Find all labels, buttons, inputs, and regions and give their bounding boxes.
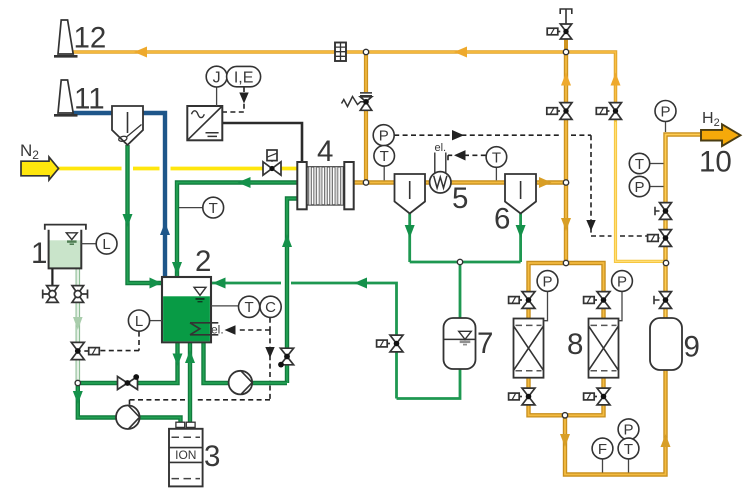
wire signal C to heater el. (dashed): [237, 318, 270, 330]
wire up arrow on blue riser: [160, 222, 170, 235]
instrument P (dryer 8b): [612, 271, 633, 292]
svg-text:10: 10: [699, 146, 732, 179]
node junction make-up/drain: [75, 380, 80, 385]
H2 product block arrow: [701, 124, 741, 146]
svg-text:2: 2: [195, 245, 211, 278]
wire separator drain to electrolyzer feed left (green): [128, 145, 162, 283]
buffer vessel 7 with level mark: [444, 318, 476, 369]
electrolyte tank 2 with heater: [162, 277, 211, 342]
instrument I,E (stadium): [227, 66, 261, 86]
instrument L (tank 2 level): [128, 310, 149, 331]
back-pressure control valve at (665.5,238) with actuator: [648, 230, 672, 247]
instrument T (after heater 5): [486, 147, 507, 168]
instrument T (stack outlet): [374, 146, 395, 167]
svg-text:7: 7: [477, 327, 493, 360]
svg-text:P: P: [379, 128, 389, 145]
svg-text:T: T: [380, 148, 389, 165]
wire up arrow into vessel 9 bottom: [661, 434, 671, 447]
svg-text:T: T: [635, 156, 644, 173]
wire tap P dryer 8a: [544, 291, 548, 320]
valve V-vent at (566,31.5) with solenoid actuator: [547, 24, 572, 39]
dryer 8b inlet valve at (603.5,300) with actuator: [584, 292, 610, 309]
svg-text:1: 1: [31, 237, 47, 270]
wire vent stub above valve x=566 to atmosphere: [564, 24, 568, 52]
wire tap P H2 line: [650, 186, 664, 188]
wire make-up water pale line from tank1: [76, 269, 81, 384]
wire flow arrow left on flare header: [454, 47, 467, 58]
wire tap L2 to tank2: [150, 320, 163, 322]
instrument P (H2 outlet top): [655, 101, 676, 122]
vent to atmosphere symbol above valve: [560, 9, 572, 24]
svg-text:I,E: I,E: [234, 69, 254, 86]
instrument J (current): [206, 66, 227, 87]
wire DC cable rectifier to stack4: [222, 123, 302, 161]
wire signal T to heater 5 (dashed): [448, 155, 486, 162]
node junction flare/vent riser: [563, 49, 568, 54]
wire tap P top of H2 line: [665, 122, 667, 132]
instrument P (stack outlet): [373, 125, 394, 146]
controller C (tank2): [260, 296, 281, 317]
wire tap T H2 line: [650, 163, 664, 165]
pump P2 (ion exchanger loop): [116, 405, 140, 429]
wire electrolyzer bottom left drain to junction (77.8,383): [80, 342, 178, 383]
svg-text:12: 12: [74, 22, 107, 55]
wire tap P dryer 8b: [619, 291, 623, 320]
dryer 8a inlet valve at (528.5,300) with actuator: [509, 292, 535, 309]
instrument P (bottom): [618, 419, 639, 440]
wire separator 5 drain (thin green): [408, 214, 411, 263]
wire separator 6 drain (thin green): [519, 214, 522, 263]
node junction flare/relief riser: [363, 49, 368, 54]
wire dryer 8b inlet stub valve to vessel: [601, 309, 605, 319]
instrument P (dryer 8a): [537, 271, 558, 292]
drain hand valve under tank1 left: [43, 286, 59, 303]
svg-text:4: 4: [317, 135, 333, 168]
wire relief riser x=366 from flare header to product line: [364, 52, 368, 183]
wire left arrow return line mid: [354, 278, 367, 289]
wire dryer 8a inlet stub valve to vessel: [526, 309, 530, 319]
svg-text:3: 3: [204, 440, 220, 473]
valve on vessel7 return line at (396.5,343.5) with actuator: [377, 335, 403, 352]
wire right arrow into electrolyzer left side: [150, 278, 162, 289]
tank1 drain stub (black): [51, 268, 53, 285]
svg-text:C: C: [265, 299, 276, 316]
flame arrestor on flare header: [335, 43, 346, 62]
instrument T (bottom): [618, 438, 639, 459]
svg-text:5: 5: [452, 182, 468, 215]
wire down arrow sep6 drain: [516, 225, 526, 238]
hand valve above vessel 9 at (665.5,300): [654, 292, 672, 309]
svg-text:6: 6: [494, 203, 510, 236]
electric gas heater 5 with el. element: [430, 153, 451, 194]
hand valve on H2 line at (665.5,211): [655, 203, 672, 220]
node junction product line/vent riser: [563, 180, 568, 185]
wire tap L1 to tank1: [81, 243, 96, 245]
wire down arrow on x=565 drop: [560, 434, 570, 447]
wire O2 line (blue) stack11 - separator - electrolyzer: [72, 113, 166, 277]
valve on x=566 riser at y=111 with solenoid actuator: [547, 103, 572, 120]
svg-text:F: F: [598, 441, 607, 458]
wire signal I,E to rectifier (dashed): [222, 87, 244, 112]
wire tap F bottom header: [602, 459, 604, 473]
relief valve PSV at (366,101.8) with spring: [342, 92, 373, 110]
svg-text:P: P: [660, 103, 670, 120]
wire pump1 discharge riser x=287 to stack4: [287, 199, 298, 384]
wire right arrow into junction (566,182.5): [539, 177, 552, 188]
wire signal C down to pump2 (dashed): [130, 330, 271, 405]
dryer 8a outlet valve at (528.5,396.5) with actuator: [509, 388, 535, 405]
wire down arrow sep5 drain: [405, 225, 415, 238]
wire dryer 8a outlet down to bottom header: [529, 378, 566, 416]
node junction dryer bottom header: [562, 413, 567, 418]
svg-text:ION: ION: [175, 448, 196, 462]
svg-text:L: L: [102, 236, 110, 253]
heater element el. in tank 2: [190, 323, 218, 335]
wire pump2 circuit junction down and to ion exchanger: [78, 383, 181, 423]
wire pump1 suction from electrolyzer bottom right: [204, 342, 288, 383]
wire dryer feed header y=263 from junction 566 to both dryer risers: [529, 263, 604, 291]
wire ion-exchanger return riser x=190 into electrolyzer: [188, 342, 192, 423]
make-up hand valve under tank1 right: [72, 286, 88, 303]
svg-text:9: 9: [684, 331, 700, 364]
gas separator 5 (H2): [395, 174, 426, 214]
wire tap T loop to green riser: [179, 207, 203, 209]
wire down arrow below junction x=77.8: [73, 391, 83, 404]
node junction vent riser / dryer feed header: [563, 260, 568, 265]
svg-text:el.: el.: [435, 142, 447, 154]
instrument T (loop temperature): [203, 197, 224, 218]
flare stack 11: [54, 80, 78, 115]
wire up arrow on x=190 riser: [185, 350, 195, 363]
svg-text:T: T: [624, 441, 633, 458]
product vessel 9: [650, 318, 682, 370]
svg-text:P: P: [623, 422, 633, 439]
valve on N2 line at (272,168.5) with actuator box above: [263, 150, 281, 175]
wire vent riser x=566 from flare header down to junction y=263: [564, 52, 568, 263]
wire signal L to make-up solenoid valve (dashed): [100, 332, 140, 351]
instrument L (tank 1 level): [96, 233, 117, 254]
svg-text:T: T: [209, 200, 218, 217]
valve on x=614 riser at y=111 with solenoid actuator: [596, 103, 621, 120]
wire left arrow on cooled return: [238, 177, 251, 188]
instrument T (tank2): [239, 296, 260, 317]
wire tap T/C to tank2: [211, 305, 239, 307]
svg-text:T: T: [492, 149, 501, 166]
wire pale down arrow: [73, 317, 83, 330]
wire left arrow return line into electrolyzer right side: [213, 278, 226, 289]
node junction dryer header: [663, 260, 668, 265]
gas separator 6 (H2): [505, 174, 536, 214]
wire up arrow on x=566 riser: [561, 73, 571, 86]
svg-text:T: T: [245, 299, 254, 316]
wire signal P to back-pressure valve (dashed): [394, 135, 648, 236]
svg-text:8: 8: [567, 328, 583, 361]
dryer vessel 8b: [589, 319, 619, 378]
wire cooled return from stack4 to electrolyzer top (green): [177, 183, 298, 278]
wire tap J to rectifier: [216, 87, 218, 106]
wire dryer 8b outlet down to bottom header: [565, 378, 604, 416]
N2 feed block arrow: [21, 157, 59, 180]
wire down arrow on bottom-left drain: [173, 354, 183, 367]
wire down arrow into electrolyzer top: [172, 262, 182, 275]
wire drain header y=262 to vessel 7: [410, 262, 521, 318]
wire vessel 9 top stub and H2 riser x=665.5: [666, 135, 702, 319]
svg-text:P: P: [542, 273, 552, 290]
node junction product line/relief riser: [363, 180, 368, 185]
ion exchanger 3: [169, 422, 203, 486]
wire tap T2 after heater: [495, 167, 497, 180]
svg-text:11: 11: [74, 83, 105, 116]
wire down arrow on x=566 riser below y=182: [561, 218, 571, 231]
water tank 1 with lid: [45, 225, 86, 269]
wire down arrow on x=127.5 drain: [123, 214, 133, 227]
wire flow arrow left near stack 12: [134, 47, 147, 58]
svg-text:P: P: [617, 273, 627, 290]
instrument P (H2 line): [629, 176, 649, 196]
valve on pump1 discharge at (287,356.5): [278, 348, 294, 367]
wire tap T bottom header: [628, 459, 630, 473]
O2 gas separator vessel (top left): [112, 106, 143, 145]
instrument F (flow bottom): [592, 438, 613, 459]
electrolysis stack 4: [297, 162, 353, 209]
wire up arrow on x=614 riser: [611, 73, 621, 86]
dryer 8b outlet valve at (603.5,396.5) with actuator: [584, 388, 610, 405]
svg-text:el.: el.: [211, 323, 224, 337]
solenoid make-up valve at (77.8,351): [71, 342, 99, 359]
instrument T (H2 line): [629, 153, 649, 173]
flare stack 12: [54, 20, 78, 56]
rectifier U1 (AC/DC converter): [187, 106, 222, 140]
wire up arrow on x=287 riser: [282, 234, 292, 247]
wire vessel7 bottom to control valve riser and return to electrolyzer: [212, 283, 460, 399]
svg-text:J: J: [213, 69, 221, 86]
svg-text:L: L: [135, 313, 143, 330]
wire N2 purge line (bright yellow) with crossing gaps: [58, 167, 298, 171]
wire light-yellow vent line x=614 below valve to junction (666,263): [616, 120, 667, 261]
pump P1 (circulation): [229, 371, 253, 395]
valve on drain header at (127.5,383): [118, 374, 140, 389]
wire tap T under P (sep inlet): [383, 166, 385, 180]
dryer vessel 8a: [514, 319, 544, 378]
svg-text:P: P: [634, 179, 644, 196]
node junction drain header y262: [457, 259, 462, 264]
wire flare header (gold) stack12 to top-right corner: [70, 52, 616, 103]
wire bottom gold run junction(565,415) down and right to vessel 9 bottom: [565, 370, 666, 475]
wire product line from stack4 to separators y=182.5: [354, 180, 566, 184]
